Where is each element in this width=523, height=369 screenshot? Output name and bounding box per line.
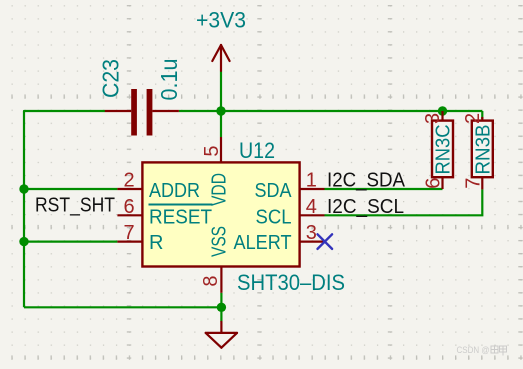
pin 2 (ADDR) stub xyxy=(117,188,142,190)
pin 3 (ALERT) stub xyxy=(300,241,325,243)
wire: bottom horizontal to ground node xyxy=(24,306,221,308)
pin 1 (SDA) stub xyxy=(300,188,325,190)
svg-text:VSS: VSS xyxy=(209,226,231,257)
resistor RN3B bottom pin (7) xyxy=(481,177,483,189)
junction: left rail pin7 node xyxy=(19,237,28,246)
capacitor C23 pins xyxy=(105,110,179,112)
svg-text:0.1u: 0.1u xyxy=(156,59,182,101)
svg-text:3: 3 xyxy=(422,113,444,124)
svg-text:SHT30–DIS: SHT30–DIS xyxy=(237,270,345,295)
svg-text:RST_SHT: RST_SHT xyxy=(35,195,115,217)
wire: top horizontal from cap left pin to left rail xyxy=(24,110,105,112)
wire: RN3B top corner drop xyxy=(481,111,483,119)
svg-text:+3V3: +3V3 xyxy=(196,8,246,33)
svg-text:2: 2 xyxy=(462,113,484,124)
resistor RN3C top pin (3) xyxy=(441,111,443,121)
resistor RN3C body xyxy=(432,121,453,178)
svg-text:ALERT: ALERT xyxy=(234,232,292,254)
svg-text:1: 1 xyxy=(306,170,317,192)
svg-text:5: 5 xyxy=(201,145,223,156)
op-amp body: IC U12 SHT30-DIS box xyxy=(142,162,299,266)
svg-text:SCL: SCL xyxy=(256,206,292,228)
capacitor C23 plates xyxy=(131,89,152,136)
watermark CSDN xyxy=(457,345,507,355)
ground symbol xyxy=(206,322,237,348)
wire: pin2 ADDR wire xyxy=(24,188,117,190)
wire: +3V3 down to VDD pin xyxy=(220,71,222,137)
power symbol +3V3 arrow xyxy=(212,45,229,71)
svg-text:RESET: RESET xyxy=(149,206,212,228)
watermark glyph jia xyxy=(500,346,507,356)
resistor RN3B body xyxy=(472,121,493,178)
watermark glyph tian xyxy=(491,346,498,353)
no-connect X on pin 3 xyxy=(318,234,333,249)
svg-text:2: 2 xyxy=(123,170,134,192)
svg-text:VDD: VDD xyxy=(209,173,231,206)
svg-text:3: 3 xyxy=(306,222,317,244)
junction: left rail pin2 node xyxy=(19,184,28,193)
wire: I2C_SCL net from pin4 to RN3B xyxy=(325,189,483,215)
junction: ground node xyxy=(217,303,226,312)
svg-text:ADDR: ADDR xyxy=(149,180,200,202)
wire: I2C_SDA net from pin1 to RN3C pin6 xyxy=(325,188,443,190)
pin 4 (SCL) stub xyxy=(300,214,325,216)
svg-text:I2C_SCL: I2C_SCL xyxy=(327,196,404,218)
svg-text:7: 7 xyxy=(123,222,134,244)
pin 8 (VSS) stub xyxy=(220,267,222,293)
svg-text:RN3C: RN3C xyxy=(433,125,455,175)
svg-text:8: 8 xyxy=(200,275,222,286)
svg-text:U12: U12 xyxy=(239,138,275,163)
junction: +3V3 node xyxy=(216,106,225,115)
wire: top horizontal from cap right pin to RN3B column xyxy=(179,110,482,112)
svg-text:6: 6 xyxy=(423,178,445,189)
junction: RN3C top node xyxy=(438,106,447,115)
svg-text:C23: C23 xyxy=(98,59,124,98)
svg-text:R: R xyxy=(149,232,163,254)
svg-text:RN3B: RN3B xyxy=(472,125,494,175)
svg-text:I2C_SDA: I2C_SDA xyxy=(327,170,406,192)
wire: VSS pin8 to ground xyxy=(220,293,222,322)
pin 7 (R) stub xyxy=(117,241,142,243)
svg-text:4: 4 xyxy=(306,196,317,218)
resistor RN3C bottom pin (6) xyxy=(441,177,443,189)
pin 6 (RESET) stub xyxy=(117,214,142,216)
svg-text:6: 6 xyxy=(123,196,134,218)
svg-text:SDA: SDA xyxy=(255,180,293,202)
wire: left vertical rail xyxy=(23,111,25,307)
pin 5 (VDD) stub xyxy=(220,137,222,162)
svg-text:CSDN @: CSDN @ xyxy=(457,345,490,355)
resistor RN3B top pin (2) xyxy=(481,117,483,121)
svg-text:7: 7 xyxy=(462,178,484,189)
wire: pin7 R wire xyxy=(24,241,117,243)
